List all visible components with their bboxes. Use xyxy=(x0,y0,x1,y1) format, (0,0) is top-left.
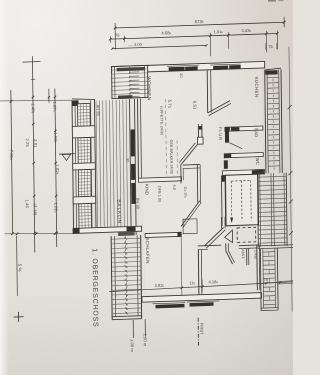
label DFB 1.00 xyxy=(157,186,161,203)
photo edge specks top right xyxy=(268,0,284,2)
label GEBR.BALKEN 24/30 xyxy=(169,140,173,174)
svg-text:2.01: 2.01 xyxy=(33,139,38,148)
wall WOHNEN-KUECHE xyxy=(207,69,231,116)
svg-text:1.825: 1.825 xyxy=(53,132,58,143)
svg-text:115 301: 115 301 xyxy=(183,186,187,199)
label KUECHE xyxy=(254,77,259,98)
dimension label 75 eave xyxy=(266,43,277,50)
label H.PFETTE 24/30 xyxy=(159,106,163,136)
stairwell with dashed walk lines and arrow xyxy=(225,174,258,226)
label BALKON xyxy=(116,199,122,224)
svg-text:SCHLAFEN: SCHLAFEN xyxy=(145,237,150,263)
south exterior wall xyxy=(142,293,262,303)
SCHLAFEN diagonal wall xyxy=(204,227,225,248)
svg-text:1.45: 1.45 xyxy=(25,199,30,208)
ridge line FIRST xyxy=(198,318,204,346)
dimension line 75 | 4.68 | 1.01 | 3.43 | 75 xyxy=(109,27,279,43)
svg-text:1.015: 1.015 xyxy=(214,29,224,34)
roof hatch strip upper xyxy=(265,68,283,173)
corridor north wall xyxy=(181,164,200,184)
svg-text:BH 90: BH 90 xyxy=(135,198,140,210)
svg-text:H.PFETTE 24/30: H.PFETTE 24/30 xyxy=(159,106,163,136)
label 30 wall xyxy=(179,73,183,78)
svg-text:KÜCHEN: KÜCHEN xyxy=(254,77,259,98)
bottom dimension line xyxy=(109,276,293,291)
svg-text:4,5: 4,5 xyxy=(172,184,176,190)
survey cross mark xyxy=(14,312,24,322)
KIND door swing square xyxy=(183,219,197,234)
BAD west wall and door xyxy=(225,131,242,150)
svg-text:DFB 1.00: DFB 1.00 xyxy=(157,186,161,203)
svg-text:FIRST: FIRST xyxy=(199,323,204,336)
dimension line 873.5 overall width xyxy=(114,16,286,49)
stair head dark bar xyxy=(118,231,135,236)
svg-text:BALKON: BALKON xyxy=(116,199,122,224)
svg-text:BAD: BAD xyxy=(254,128,259,137)
svg-text:1.435: 1.435 xyxy=(253,250,257,260)
sheet border line right xyxy=(287,47,294,312)
svg-text:8735: 8735 xyxy=(195,19,204,24)
label 11.5 30.1 xyxy=(183,186,187,199)
svg-text:WC: WC xyxy=(255,158,260,165)
south window sill right xyxy=(187,301,220,307)
extension line schlafen xyxy=(180,232,183,299)
BAD north wall xyxy=(225,126,263,131)
WC north wall xyxy=(224,153,263,158)
wall between WOHNEN and KIND xyxy=(138,177,181,182)
label 4.5 xyxy=(172,184,176,190)
staircase NW treads xyxy=(112,65,148,99)
short reference line xyxy=(48,89,50,103)
label 6.51 xyxy=(192,101,197,110)
wall below WC xyxy=(222,169,264,175)
dimension extension right xyxy=(278,281,294,284)
corridor east wall xyxy=(197,164,200,202)
label SCHLAFEN xyxy=(145,237,150,263)
SCHLAFEN north wall xyxy=(145,232,182,238)
svg-text:WOHNEN: WOHNEN xyxy=(147,76,152,100)
svg-text:5.71: 5.71 xyxy=(167,100,172,109)
extension line balcony bottom xyxy=(5,231,74,237)
svg-text:4.685: 4.685 xyxy=(161,30,171,35)
wall stub stairwell corner xyxy=(221,217,225,229)
label 1.1 swing xyxy=(182,221,186,228)
vent triangle symbol xyxy=(59,154,75,161)
svg-text:1.15: 1.15 xyxy=(182,221,186,228)
svg-text:ABST.: ABST. xyxy=(241,249,245,259)
svg-text:(1.19): (1.19) xyxy=(33,204,38,216)
lower staircase treads xyxy=(111,235,142,320)
dim extension ticks xyxy=(210,37,277,56)
svg-text:1.825: 1.825 xyxy=(55,164,60,175)
label 30 door xyxy=(125,158,129,163)
beam dash line xyxy=(165,99,168,176)
wall corner below stairwell xyxy=(226,243,235,264)
label WC xyxy=(255,158,260,165)
stairwell west wall xyxy=(221,175,225,226)
slope line 5 percent xyxy=(17,236,23,296)
svg-text:30: 30 xyxy=(179,73,183,78)
label 1.43 xyxy=(253,250,257,260)
SCHLAFEN east wall xyxy=(198,250,202,297)
label 5.71 xyxy=(167,100,172,109)
svg-text:1.485: 1.485 xyxy=(31,103,36,114)
level line 2.00 xyxy=(142,319,147,347)
svg-text:6.51: 6.51 xyxy=(192,101,197,110)
label KIND xyxy=(144,184,149,195)
KIND door leaf diagonal xyxy=(181,201,202,228)
svg-text:115: 115 xyxy=(189,280,195,285)
svg-text:— 3.00: — 3.00 xyxy=(129,42,143,47)
flur chimney wall xyxy=(179,124,203,164)
svg-text:30: 30 xyxy=(125,158,129,163)
svg-text:GEB.BALKEN 24/30: GEB.BALKEN 24/30 xyxy=(169,140,173,174)
svg-text:4.185: 4.185 xyxy=(208,279,218,284)
paper left edge xyxy=(0,0,9,375)
label BAD xyxy=(254,128,259,137)
svg-text:2.25: 2.25 xyxy=(25,138,30,147)
south window sill left xyxy=(152,303,185,309)
WC west wall xyxy=(224,160,228,169)
svg-text:1. OBERGESCHOSS: 1. OBERGESCHOSS xyxy=(91,248,99,328)
label BH 90 door xyxy=(135,198,140,210)
svg-text:KIND: KIND xyxy=(144,184,149,195)
label BH 90 band xyxy=(96,104,101,116)
dashed skylight square xyxy=(237,227,256,242)
north exterior wall xyxy=(112,61,265,73)
svg-text:2.00 m: 2.00 m xyxy=(143,334,148,348)
extension line 201 xyxy=(201,280,203,292)
external stair strip middle xyxy=(257,173,293,249)
dimension line C with segment labels xyxy=(52,88,61,247)
extension line balcony top xyxy=(0,98,72,102)
SCHLAFEN northeast wall xyxy=(198,245,222,250)
dimension line B with segment labels xyxy=(22,56,42,253)
svg-text:FLUR: FLUR xyxy=(218,127,223,141)
label WOHNEN xyxy=(147,76,152,100)
svg-text:1.00 m: 1.00 m xyxy=(130,339,135,353)
svg-text:~7.315: ~7.315 xyxy=(9,147,14,160)
svg-text:1.875: 1.875 xyxy=(52,101,57,112)
ABST walls xyxy=(239,245,260,291)
svg-text:1.825: 1.825 xyxy=(53,202,58,213)
svg-text:3.935: 3.935 xyxy=(154,283,164,288)
dimension line 3.00 xyxy=(111,40,207,50)
svg-text:BH 90: BH 90 xyxy=(96,104,101,116)
title 1. OBERGESCHOSS xyxy=(91,248,99,328)
dimension line A 7.31 xyxy=(8,90,15,235)
label ABST xyxy=(241,249,245,259)
room interior light wash xyxy=(141,70,265,297)
direction triangle xyxy=(225,230,233,243)
balcony sliding door wall xyxy=(130,99,137,235)
beam dash line 2 xyxy=(176,140,178,176)
label FLUR xyxy=(218,127,223,141)
balcony window band with muntin grids xyxy=(72,98,97,233)
balcony deck planks xyxy=(96,100,128,228)
balcony south wall xyxy=(73,226,142,233)
living room west wall xyxy=(138,99,142,179)
svg-text:3.435: 3.435 xyxy=(241,28,251,33)
hatch strip lower xyxy=(260,248,278,311)
level line 1.00 xyxy=(129,320,134,353)
svg-text:5 %: 5 % xyxy=(17,264,22,272)
